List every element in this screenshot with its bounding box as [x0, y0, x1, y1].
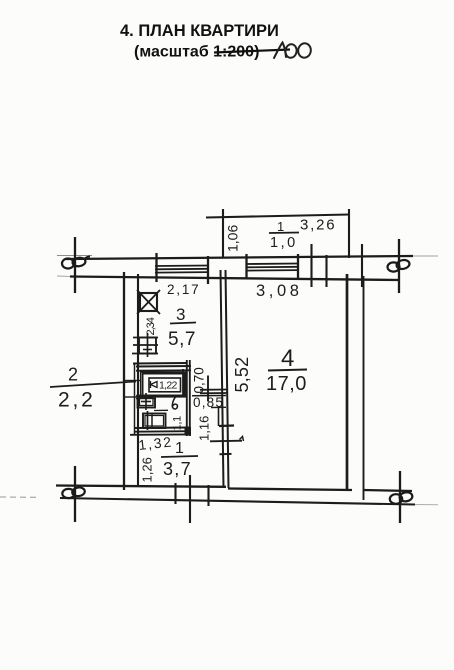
- svg-text:1,1: 1,1: [172, 416, 184, 431]
- svg-text:0,85: 0,85: [193, 395, 224, 410]
- svg-text:3,08: 3,08: [256, 282, 303, 300]
- svg-text:1,26: 1,26: [140, 457, 155, 482]
- svg-text:2,17: 2,17: [167, 282, 200, 297]
- svg-text:2,34: 2,34: [145, 317, 157, 335]
- svg-text:1,0: 1,0: [270, 235, 298, 251]
- svg-text:2: 2: [68, 365, 78, 385]
- svg-text:17,0: 17,0: [266, 373, 307, 395]
- svg-text:1: 1: [277, 219, 284, 234]
- svg-text:1,06: 1,06: [225, 225, 241, 252]
- svg-text:3: 3: [176, 305, 185, 324]
- svg-text:2,2: 2,2: [58, 389, 96, 412]
- svg-text:4: 4: [281, 345, 294, 372]
- svg-text:3,26: 3,26: [300, 217, 336, 234]
- svg-text:1,22: 1,22: [159, 380, 177, 392]
- svg-text:1: 1: [175, 440, 184, 457]
- svg-text:4. ПЛАН КВАРТИРИ: 4. ПЛАН КВАРТИРИ: [120, 22, 279, 40]
- svg-text:0,70: 0,70: [192, 367, 207, 393]
- svg-text:1,16: 1,16: [197, 416, 212, 441]
- svg-text:3,7: 3,7: [163, 459, 192, 479]
- svg-text:5,7: 5,7: [168, 329, 196, 350]
- svg-text:5,52: 5,52: [232, 357, 252, 393]
